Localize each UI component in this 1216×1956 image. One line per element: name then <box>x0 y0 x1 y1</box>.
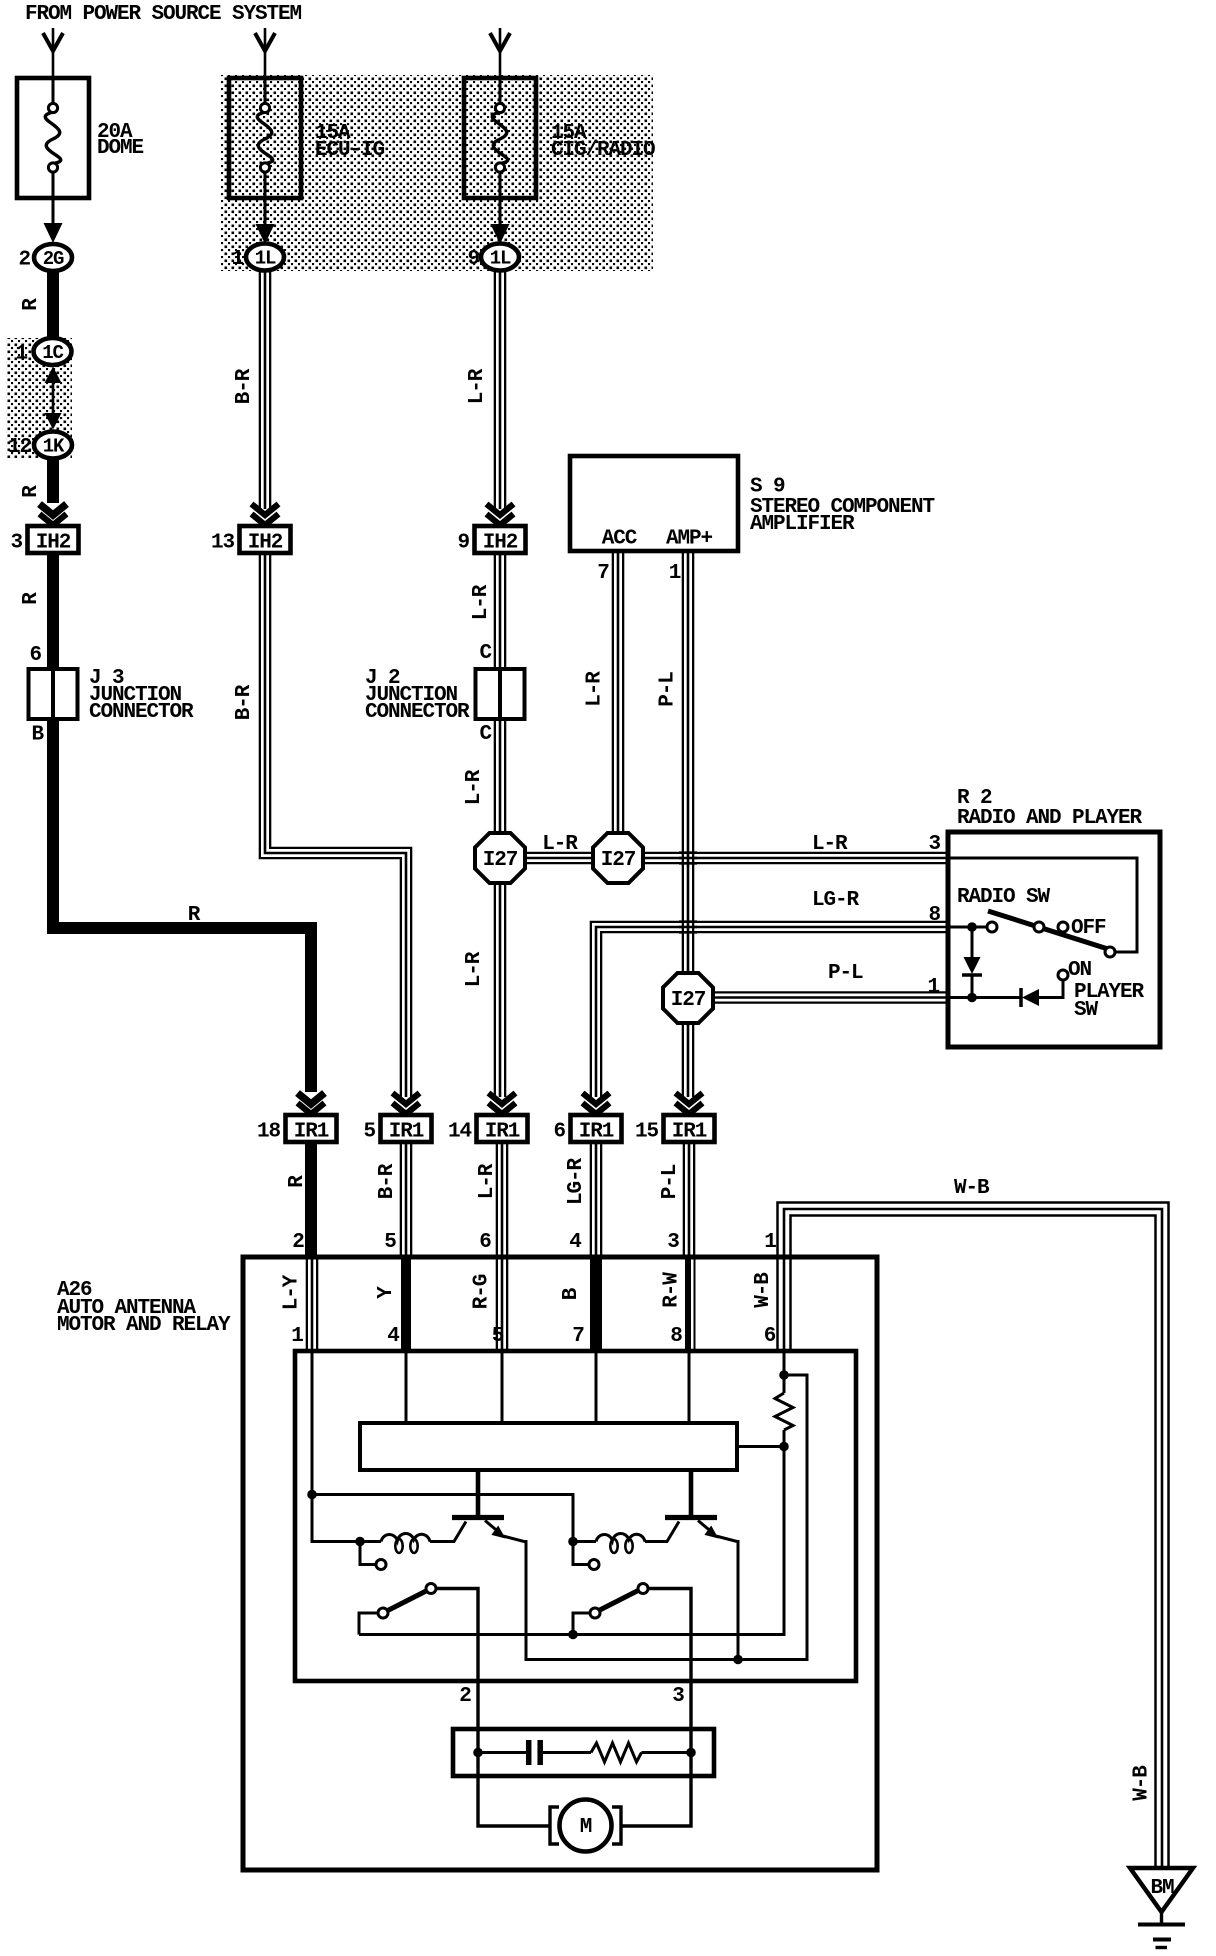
svg-text:ON: ON <box>1068 959 1092 982</box>
svg-text:R: R <box>20 485 43 498</box>
svg-text:14: 14 <box>448 1121 472 1144</box>
svg-text:L-R: L-R <box>463 769 486 805</box>
svg-text:IR1: IR1 <box>579 1121 614 1144</box>
svg-text:2: 2 <box>292 1231 304 1254</box>
svg-text:B-R: B-R <box>233 368 256 404</box>
svg-text:MOTOR AND RELAY: MOTOR AND RELAY <box>57 1314 231 1337</box>
svg-text:5: 5 <box>492 1325 504 1348</box>
svg-text:IH2: IH2 <box>248 532 283 555</box>
svg-text:15: 15 <box>635 1121 659 1144</box>
svg-text:CIG/RADIO: CIG/RADIO <box>551 139 655 162</box>
svg-text:R-W: R-W <box>661 1272 684 1308</box>
svg-text:9: 9 <box>467 248 479 271</box>
svg-text:IR1: IR1 <box>672 1121 707 1144</box>
svg-text:8: 8 <box>670 1325 682 1348</box>
svg-text:3: 3 <box>667 1231 679 1254</box>
svg-text:7: 7 <box>597 562 609 585</box>
svg-text:FROM POWER SOURCE SYSTEM: FROM POWER SOURCE SYSTEM <box>25 3 302 26</box>
svg-text:R: R <box>188 904 201 927</box>
svg-text:L-Y: L-Y <box>281 1274 304 1310</box>
svg-text:L-R: L-R <box>476 1163 499 1199</box>
svg-text:1: 1 <box>291 1325 303 1348</box>
svg-text:1: 1 <box>927 976 939 999</box>
svg-text:2: 2 <box>459 1685 471 1708</box>
svg-text:1: 1 <box>669 562 681 585</box>
svg-text:6: 6 <box>764 1325 776 1348</box>
svg-text:4: 4 <box>569 1231 581 1254</box>
svg-text:IR1: IR1 <box>294 1121 329 1144</box>
svg-text:6: 6 <box>479 1231 491 1254</box>
svg-text:CONNECTOR: CONNECTOR <box>365 701 470 724</box>
svg-text:8: 8 <box>928 904 940 927</box>
svg-text:L-R: L-R <box>463 951 486 987</box>
svg-text:I27: I27 <box>601 849 636 872</box>
svg-text:R: R <box>286 1175 309 1188</box>
svg-text:ECU-IG: ECU-IG <box>315 139 385 162</box>
svg-text:L-R: L-R <box>470 584 493 620</box>
svg-text:IH2: IH2 <box>36 532 71 555</box>
svg-text:12: 12 <box>8 436 32 459</box>
svg-text:R: R <box>20 298 43 311</box>
svg-text:CONNECTOR: CONNECTOR <box>89 701 194 724</box>
svg-text:3: 3 <box>672 1685 684 1708</box>
svg-text:13: 13 <box>211 532 235 555</box>
svg-text:B: B <box>560 1287 583 1300</box>
svg-text:1: 1 <box>764 1231 776 1254</box>
svg-text:6: 6 <box>553 1121 565 1144</box>
svg-text:P-L: P-L <box>828 962 863 985</box>
svg-text:L-R: L-R <box>584 671 607 707</box>
svg-text:9: 9 <box>457 532 469 555</box>
svg-text:B-R: B-R <box>233 684 256 720</box>
svg-text:2G: 2G <box>43 248 64 270</box>
svg-text:L-R: L-R <box>466 368 489 404</box>
svg-text:IR1: IR1 <box>485 1121 520 1144</box>
svg-text:SW: SW <box>1074 999 1099 1022</box>
svg-text:18: 18 <box>257 1121 281 1144</box>
svg-text:L-R: L-R <box>542 833 578 856</box>
svg-text:6: 6 <box>29 644 41 667</box>
svg-text:RADIO SW: RADIO SW <box>957 886 1051 909</box>
svg-text:W-B: W-B <box>752 1272 775 1308</box>
svg-text:P-L: P-L <box>657 672 680 707</box>
svg-text:IH2: IH2 <box>483 532 518 555</box>
svg-text:P-L: P-L <box>659 1164 682 1199</box>
svg-text:W-B: W-B <box>1131 1765 1154 1801</box>
svg-text:B-R: B-R <box>376 1163 399 1199</box>
svg-text:R: R <box>20 592 43 605</box>
svg-text:OFF: OFF <box>1071 917 1106 940</box>
svg-text:B: B <box>31 724 44 747</box>
svg-text:1C: 1C <box>42 342 63 364</box>
svg-text:2: 2 <box>18 249 30 272</box>
svg-text:RADIO AND PLAYER: RADIO AND PLAYER <box>957 807 1143 830</box>
svg-text:1L: 1L <box>490 248 511 270</box>
svg-text:C: C <box>479 642 492 665</box>
svg-text:LG-R: LG-R <box>565 1158 588 1206</box>
svg-text:DOME: DOME <box>97 137 144 160</box>
svg-text:5: 5 <box>363 1121 375 1144</box>
svg-text:R-G: R-G <box>471 1274 494 1309</box>
svg-text:5: 5 <box>384 1231 396 1254</box>
svg-text:AMPLIFIER: AMPLIFIER <box>750 513 855 536</box>
svg-text:IR1: IR1 <box>389 1121 424 1144</box>
svg-text:3: 3 <box>10 532 22 555</box>
svg-text:3: 3 <box>928 833 940 856</box>
svg-text:ACC: ACC <box>602 528 638 551</box>
svg-text:1: 1 <box>15 343 27 366</box>
svg-text:W-B: W-B <box>954 1177 990 1200</box>
svg-text:L-R: L-R <box>812 833 848 856</box>
svg-text:I27: I27 <box>671 989 706 1012</box>
svg-text:M: M <box>580 1816 592 1839</box>
svg-text:4: 4 <box>387 1325 399 1348</box>
svg-text:1: 1 <box>231 248 243 271</box>
svg-text:AMP+: AMP+ <box>666 528 713 551</box>
svg-text:C: C <box>479 723 492 746</box>
svg-text:LG-R: LG-R <box>812 889 860 912</box>
svg-text:I27: I27 <box>483 849 518 872</box>
svg-text:BM: BM <box>1150 1877 1174 1900</box>
svg-text:1K: 1K <box>43 436 65 458</box>
svg-text:1L: 1L <box>255 248 276 270</box>
svg-text:Y: Y <box>375 1286 398 1299</box>
svg-text:7: 7 <box>572 1325 584 1348</box>
